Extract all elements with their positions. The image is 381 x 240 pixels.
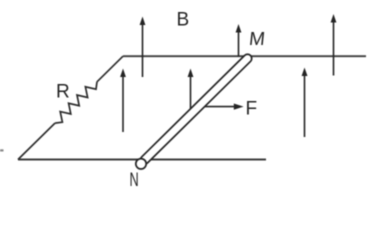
- svg-text:F: F: [246, 99, 258, 120]
- rod end cap circle at N: [136, 159, 146, 169]
- rod MN (sliding conductor, white capsule): [139, 53, 254, 166]
- field arrow B2 (below rail, left): [120, 69, 126, 133]
- field arrow B6 (through top rail, far right): [331, 14, 337, 76]
- wire: top rail: [123, 55, 366, 57]
- field arrow B5 (below rail, right): [302, 68, 308, 138]
- field arrow B1 (above/through top rail, left): [140, 17, 146, 78]
- force arrow F (from rod, pointing right): [200, 104, 244, 110]
- svg-text:B: B: [177, 10, 190, 31]
- stray tick at left edge: [0, 149, 4, 151]
- svg-text:M: M: [248, 29, 266, 50]
- field arrow B3 (centre, ends at rod): [188, 69, 194, 119]
- wire: left slanted lead lower: [18, 123, 55, 159]
- wire: left slanted lead upper: [97, 56, 123, 82]
- svg-text:R: R: [56, 82, 70, 103]
- field arrow B4 (above rail, left of M): [236, 24, 242, 57]
- svg-text:N: N: [130, 170, 139, 191]
- resistor R: [55, 82, 97, 123]
- wire: bottom rail: [18, 159, 266, 161]
